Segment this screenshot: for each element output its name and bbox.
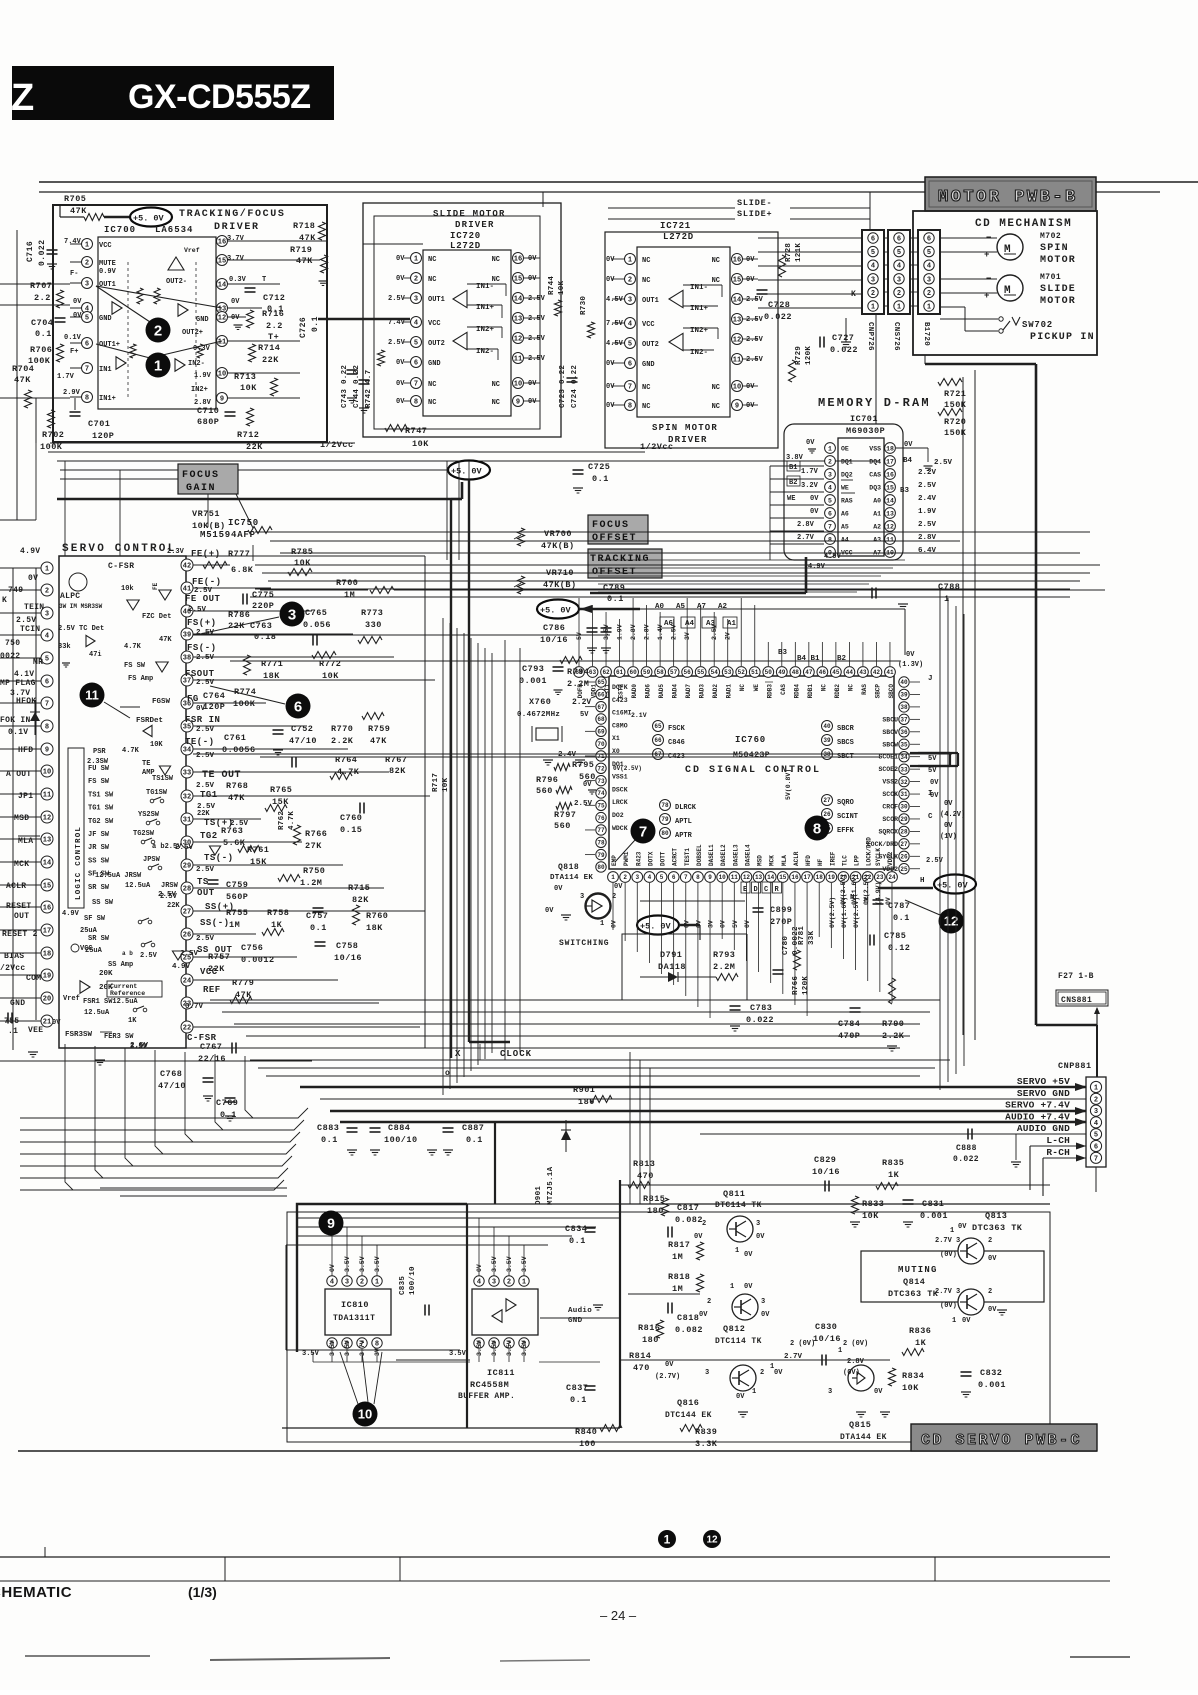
svg-text:1: 1	[1094, 1085, 1098, 1093]
svg-text:0V: 0V	[958, 1223, 967, 1231]
svg-text:10/16: 10/16	[812, 1167, 840, 1177]
svg-text:1: 1	[414, 256, 418, 264]
pin 6 IC721	[625, 358, 636, 369]
svg-text:GX-CD555Z: GX-CD555Z	[128, 78, 311, 116]
svg-text:2: 2	[760, 1369, 764, 1377]
svg-text:6: 6	[414, 360, 418, 368]
svg-text:APTR: APTR	[675, 832, 693, 840]
svg-text:11: 11	[886, 536, 894, 543]
svg-text:79: 79	[597, 852, 605, 859]
svg-text:R764: R764	[335, 755, 357, 765]
svg-text:11: 11	[218, 339, 226, 347]
svg-text:4: 4	[927, 263, 931, 271]
svg-text:2.3V: 2.3V	[167, 548, 185, 556]
svg-text:R786: R786	[228, 610, 250, 620]
svg-text:80: 80	[597, 864, 605, 871]
svg-text:3.5V: 3.5V	[491, 1340, 498, 1356]
svg-text:VEE: VEE	[28, 1026, 43, 1035]
svg-text:38: 38	[900, 704, 908, 711]
wire servo gnd rail	[320, 1098, 1086, 1100]
power +5.0V oval	[130, 208, 172, 227]
svg-text:78: 78	[661, 802, 669, 809]
svg-text:57: 57	[670, 669, 678, 676]
svg-text:27K: 27K	[305, 841, 322, 851]
pin 26 IC750	[181, 928, 193, 940]
pin 16 IC721	[732, 254, 743, 265]
pin 20 IC750	[0, 997, 41, 999]
svg-text:0.056: 0.056	[303, 620, 331, 630]
pin 7 IC700	[70, 367, 81, 369]
svg-text:3.5V: 3.5V	[476, 1340, 483, 1356]
wire callout 3	[200, 617, 279, 634]
svg-text:R793: R793	[713, 950, 735, 960]
focus gain label	[178, 464, 238, 494]
transistor Q815	[848, 1365, 874, 1391]
svg-text:0V: 0V	[810, 495, 819, 503]
wire R700 net	[260, 589, 368, 591]
svg-text:HF: HF	[817, 858, 824, 866]
svg-text:DTC114 TK: DTC114 TK	[715, 1201, 762, 1210]
ground C793	[554, 689, 563, 691]
svg-text:3.5V: 3.5V	[344, 1256, 351, 1272]
pin 9 IC720	[513, 396, 524, 407]
svg-text:RAD3: RAD3	[699, 684, 706, 699]
svg-text:0.3V: 0.3V	[229, 276, 247, 284]
svg-text:2.5V: 2.5V	[528, 355, 546, 363]
svg-text:66: 66	[597, 691, 605, 698]
svg-text:NC: NC	[712, 277, 720, 285]
motor M701 slide	[997, 275, 1023, 301]
svg-text:IC760: IC760	[735, 735, 766, 745]
svg-text:9: 9	[708, 874, 712, 881]
svg-text:2.5V: 2.5V	[918, 482, 937, 490]
pin 8 IC721	[625, 400, 636, 411]
svg-text:1: 1	[664, 1532, 671, 1546]
svg-text:10K: 10K	[902, 1383, 919, 1393]
svg-text:16: 16	[886, 471, 894, 478]
svg-text:MSD: MSD	[757, 855, 764, 866]
svg-text:NC: NC	[428, 399, 436, 407]
pin 10 IC750	[0, 770, 41, 772]
svg-text:ACRCT: ACRCT	[672, 848, 679, 866]
diode D left	[30, 712, 40, 721]
svg-text:DSCK: DSCK	[612, 786, 628, 793]
cd signal IC760 body	[609, 676, 894, 869]
svg-text:4: 4	[628, 321, 632, 329]
svg-text:12: 12	[514, 336, 522, 344]
svg-text:R-CH: R-CH	[1046, 1147, 1070, 1158]
svg-text:C725: C725	[588, 462, 610, 472]
svg-text:120P: 120P	[92, 431, 114, 441]
capacitor C755	[7, 1013, 9, 1024]
svg-text:4: 4	[45, 633, 49, 641]
svg-text:CNP881: CNP881	[1058, 1061, 1092, 1071]
cd signal IC760 internal sub pins	[653, 721, 664, 732]
svg-text:OUT: OUT	[14, 912, 29, 921]
svg-text:SQRO: SQRO	[837, 799, 854, 807]
svg-text:0V: 0V	[231, 314, 240, 322]
svg-text:SS(-): SS(-)	[200, 918, 230, 928]
svg-text:3: 3	[705, 1369, 709, 1377]
svg-text:4: 4	[1094, 1120, 1098, 1128]
svg-text:47/10: 47/10	[158, 1081, 186, 1091]
svg-text:MTZJ5.1A: MTZJ5.1A	[547, 1166, 555, 1205]
svg-text:K: K	[851, 290, 856, 299]
svg-text:100/10: 100/10	[384, 1135, 418, 1145]
svg-text:GND: GND	[99, 315, 112, 323]
svg-text:R760: R760	[366, 911, 388, 921]
svg-text:47K(B): 47K(B)	[541, 541, 575, 551]
svg-text:H: H	[920, 877, 925, 885]
svg-text:9: 9	[327, 1215, 335, 1231]
pin 5 IC700	[70, 316, 81, 318]
svg-text:0V: 0V	[806, 439, 815, 447]
svg-text:SERVO +7.4V: SERVO +7.4V	[1005, 1100, 1070, 1111]
svg-text:LA6534: LA6534	[155, 225, 193, 235]
svg-text:C724 0.22: C724 0.22	[571, 365, 579, 408]
svg-text:8: 8	[628, 403, 632, 411]
svg-text:C764: C764	[203, 691, 225, 701]
svg-text:C726: C726	[299, 317, 308, 338]
svg-text:749: 749	[8, 586, 23, 595]
pin 7 IC721	[625, 381, 636, 392]
svg-text:1.2M: 1.2M	[300, 878, 322, 888]
transistor Q813	[958, 1238, 984, 1264]
svg-text:0.1: 0.1	[310, 923, 327, 933]
svg-text:F+: F+	[70, 348, 78, 356]
pin column left IC760	[596, 677, 606, 687]
svg-text:0V: 0V	[944, 822, 953, 830]
svg-text:22K: 22K	[167, 902, 180, 910]
svg-text:IC811: IC811	[487, 1368, 515, 1378]
svg-text:2.2: 2.2	[266, 321, 283, 331]
pin 16 IC750	[0, 906, 41, 908]
pin 5 IC750	[0, 657, 41, 659]
svg-text:12: 12	[218, 315, 226, 323]
svg-text:L-CH: L-CH	[1046, 1135, 1070, 1146]
svg-text:SW702: SW702	[1022, 320, 1053, 330]
wire connector links	[884, 237, 888, 239]
svg-text:2.8V: 2.8V	[630, 624, 637, 640]
numbered mark 7	[631, 819, 656, 844]
svg-text:RAD7: RAD7	[685, 684, 692, 699]
svg-text:47K: 47K	[228, 793, 245, 803]
scan smudges	[25, 1655, 150, 1657]
svg-text:A5: A5	[841, 524, 849, 531]
svg-text:47i: 47i	[89, 651, 102, 659]
svg-text:RDB3: RDB3	[766, 684, 773, 699]
pin 22 IC750	[181, 1021, 193, 1033]
svg-text:SBCS: SBCS	[837, 739, 854, 747]
numbered mark 9	[319, 1211, 344, 1236]
svg-text:WE: WE	[841, 485, 849, 492]
svg-text:66: 66	[654, 737, 662, 744]
svg-text:R704: R704	[12, 364, 34, 374]
svg-text:C834: C834	[565, 1224, 587, 1234]
pin 14 IC701	[885, 495, 896, 506]
svg-text:A OUT: A OUT	[6, 770, 32, 779]
svg-text:2.8V: 2.8V	[797, 521, 815, 529]
svg-text:2.5V: 2.5V	[388, 295, 406, 303]
svg-text:12.5uA JRSW: 12.5uA JRSW	[95, 872, 142, 880]
svg-text:10: 10	[514, 381, 522, 389]
svg-text:RAD4: RAD4	[672, 684, 679, 699]
wire scoe thick bracket	[910, 752, 950, 754]
wire callout 12	[905, 900, 940, 915]
svg-text:0V: 0V	[396, 398, 405, 406]
svg-text:25: 25	[900, 866, 908, 873]
ground C725	[573, 487, 583, 489]
svg-text:TG1 SW: TG1 SW	[88, 805, 114, 813]
svg-text:CNP726: CNP726	[866, 322, 874, 351]
svg-text:8: 8	[85, 395, 89, 403]
svg-text:11: 11	[514, 356, 522, 364]
svg-text:BUFFER AMP.: BUFFER AMP.	[458, 1392, 515, 1401]
svg-text:0V: 0V	[746, 402, 755, 410]
svg-text:0V: 0V	[736, 1393, 745, 1401]
pin 13 IC750	[0, 838, 41, 840]
svg-text:JR SW: JR SW	[88, 844, 110, 852]
svg-text:0V: 0V	[944, 800, 953, 808]
pin 12 IC701	[885, 521, 896, 532]
svg-text:0V(2.5V): 0V(2.5V)	[863, 874, 870, 905]
svg-text:DTC114 TK: DTC114 TK	[715, 1337, 762, 1346]
svg-text:SBCO: SBCO	[888, 684, 895, 699]
wire arrow CNS881	[1096, 1008, 1098, 1025]
svg-text:9: 9	[516, 399, 520, 407]
svg-text:10/16: 10/16	[334, 953, 362, 963]
svg-text:39: 39	[900, 692, 908, 699]
svg-text:0.1: 0.1	[321, 1135, 338, 1145]
svg-text:R717: R717	[432, 773, 440, 792]
svg-text:Q813: Q813	[985, 1211, 1007, 1221]
svg-text:75: 75	[597, 802, 605, 809]
svg-text:RDB1: RDB1	[807, 684, 814, 699]
resistor R721	[938, 379, 962, 386]
svg-text:19: 19	[828, 874, 836, 881]
svg-text:NC: NC	[712, 257, 720, 265]
svg-text:TLC: TLC	[841, 855, 848, 866]
wire c789 thick rail	[590, 592, 806, 595]
svg-text:270P: 270P	[770, 917, 792, 927]
svg-text:R744: R744	[548, 276, 556, 295]
svg-text:47K: 47K	[370, 736, 387, 746]
svg-text:C743 0.22: C743 0.22	[341, 365, 349, 408]
ground q816	[738, 1411, 748, 1413]
svg-text:40: 40	[900, 679, 908, 686]
svg-text:7: 7	[85, 366, 89, 374]
svg-text:680P: 680P	[197, 417, 219, 427]
tracking offset label	[588, 549, 662, 578]
svg-text:C712: C712	[263, 293, 285, 303]
connector CNP881 body	[1086, 1077, 1106, 1167]
svg-text:RAS: RAS	[841, 498, 853, 505]
svg-text:FS SW: FS SW	[124, 662, 146, 670]
svg-text:3: 3	[85, 281, 89, 289]
svg-text:C16MI: C16MI	[612, 710, 632, 717]
svg-text:3: 3	[828, 1388, 832, 1396]
ground C716	[47, 263, 57, 265]
svg-text:FSOUT: FSOUT	[185, 669, 215, 679]
svg-text:TS(-): TS(-)	[204, 853, 234, 863]
ground left rail	[28, 1051, 38, 1053]
IC700 internal amplifiers	[112, 302, 122, 314]
ground 783	[730, 1025, 740, 1027]
svg-text:SPIN MOTOR: SPIN MOTOR	[652, 423, 718, 433]
svg-text:13: 13	[514, 316, 522, 324]
internal sub pins right IC760	[822, 721, 833, 732]
svg-text:4.7K: 4.7K	[122, 747, 140, 755]
svg-text:470: 470	[633, 1363, 650, 1373]
svg-text:Q811: Q811	[723, 1189, 745, 1199]
svg-text:FZC Det: FZC Det	[142, 613, 171, 621]
servo internal transistor ALPC	[69, 573, 87, 591]
svg-text:29: 29	[900, 816, 908, 823]
wire pwb drop thick	[1035, 364, 1038, 1025]
svg-text:49: 49	[778, 669, 786, 676]
svg-text:7: 7	[45, 701, 49, 709]
pin 13 IC720	[513, 313, 524, 324]
svg-text:0V: 0V	[744, 1251, 753, 1259]
svg-text:1M: 1M	[344, 590, 355, 600]
svg-text:65: 65	[654, 723, 662, 730]
svg-text:MOTOR PWB-B: MOTOR PWB-B	[938, 188, 1078, 207]
wire audio thick inner	[466, 1204, 468, 1428]
svg-text:A4: A4	[685, 620, 695, 628]
numbered mark 8	[805, 816, 830, 841]
pin 17 IC701	[885, 456, 896, 467]
svg-text:SQRCX: SQRCX	[878, 828, 898, 835]
svg-text:0V: 0V	[720, 920, 727, 928]
svg-text:26: 26	[900, 853, 908, 860]
svg-text:C789: C789	[603, 583, 625, 593]
svg-text:SBCW: SBCW	[882, 741, 898, 748]
svg-text:TG2 SW: TG2 SW	[88, 818, 114, 826]
svg-text:2.5V: 2.5V	[196, 654, 215, 662]
svg-text:4.9V: 4.9V	[62, 910, 80, 918]
svg-text:SERVO CONTROL: SERVO CONTROL	[62, 543, 176, 555]
svg-text:NC: NC	[712, 384, 720, 392]
svg-text:2.5V: 2.5V	[196, 726, 215, 734]
svg-text:2: 2	[507, 1279, 511, 1287]
svg-text:LRCK: LRCK	[612, 799, 628, 806]
svg-text:11: 11	[85, 688, 99, 703]
svg-text:4: 4	[477, 1279, 481, 1287]
svg-text:8: 8	[828, 536, 832, 543]
svg-text:0V: 0V	[231, 298, 240, 306]
wire bundle to audio box	[100, 1187, 287, 1189]
internal sub pins mid IC760	[660, 800, 671, 811]
svg-text:R702: R702	[42, 430, 64, 440]
wire clock drop	[468, 480, 470, 1042]
svg-text:5: 5	[85, 315, 89, 323]
resistor R747	[385, 425, 407, 432]
memory outer loop box	[784, 424, 903, 560]
svg-text:0.1: 0.1	[570, 1395, 587, 1405]
svg-text:IC810: IC810	[341, 1300, 369, 1310]
svg-text:VSS: VSS	[869, 446, 881, 453]
svg-text:NC: NC	[428, 256, 436, 264]
svg-text:CD SERVO PWB-C: CD SERVO PWB-C	[921, 1432, 1082, 1449]
svg-text:9: 9	[735, 403, 739, 411]
svg-text:DTC363 TK: DTC363 TK	[888, 1289, 939, 1299]
svg-text:HFD: HFD	[805, 855, 812, 866]
svg-text:GAIN: GAIN	[186, 483, 216, 494]
svg-text:Q815: Q815	[849, 1420, 871, 1430]
svg-text:2: 2	[360, 1279, 364, 1287]
pin 4 CNP881	[1090, 1117, 1101, 1128]
svg-text:R757: R757	[208, 952, 230, 962]
svg-text:0.12: 0.12	[888, 943, 910, 953]
svg-text:A7: A7	[697, 603, 706, 611]
pin 18 IC701	[885, 443, 896, 454]
svg-text:0V: 0V	[396, 255, 405, 263]
svg-text:35: 35	[900, 741, 908, 748]
svg-text:0.0056: 0.0056	[222, 745, 256, 755]
svg-text:0V: 0V	[874, 1388, 883, 1396]
svg-text:R768: R768	[226, 781, 248, 791]
svg-text:14: 14	[514, 296, 522, 304]
svg-text:A6: A6	[841, 511, 849, 518]
svg-text:0V: 0V	[611, 920, 618, 928]
svg-text:FSR1 SW12.5uA: FSR1 SW12.5uA	[83, 998, 138, 1006]
svg-text:3.5V: 3.5V	[521, 1256, 528, 1272]
svg-text:1: 1	[154, 357, 162, 374]
svg-text:R834: R834	[902, 1371, 924, 1381]
wire pot arrow focus gain	[235, 492, 253, 528]
svg-text:RAS: RAS	[861, 684, 868, 695]
svg-text:12: 12	[743, 874, 751, 881]
svg-text:3.5V: 3.5V	[374, 1256, 381, 1272]
svg-text:21: 21	[43, 1019, 51, 1027]
svg-text:JP1: JP1	[18, 792, 33, 801]
pin 5 IC721	[625, 338, 636, 349]
svg-text:0V(2.5V): 0V(2.5V)	[829, 897, 836, 928]
svg-text:WE: WE	[787, 495, 795, 503]
svg-text:SLIDE+: SLIDE+	[737, 209, 772, 219]
pin 10 IC721	[732, 381, 743, 392]
svg-text:100/10: 100/10	[409, 1266, 417, 1295]
svg-text:0.022: 0.022	[38, 239, 47, 266]
svg-text:9: 9	[45, 747, 49, 755]
pin 8 IC750	[0, 725, 41, 727]
svg-text:6: 6	[871, 236, 875, 244]
svg-text:20K: 20K	[99, 970, 113, 978]
svg-text:33k: 33k	[58, 643, 71, 651]
svg-text:SYCLK: SYCLK	[875, 848, 882, 866]
pin 19 IC750	[0, 974, 41, 976]
servo internal FZC	[127, 600, 139, 610]
svg-text:GND: GND	[642, 361, 655, 369]
overline WE pin	[841, 479, 853, 481]
svg-text:R765: R765	[270, 785, 292, 795]
pin 3 IC721	[625, 294, 636, 305]
op-amp IC720 body	[423, 250, 511, 416]
svg-text:(4.2V): (4.2V)	[940, 811, 965, 819]
pin 15 IC720	[513, 273, 524, 284]
svg-text:M701: M701	[1040, 273, 1061, 282]
svg-text:0.1: 0.1	[569, 1236, 586, 1246]
pin 1 IC721	[625, 254, 636, 265]
pin 11 IC720	[513, 353, 524, 364]
dac IC810 body	[325, 1289, 391, 1335]
svg-text:17: 17	[886, 458, 894, 465]
svg-text:1: 1	[952, 1317, 956, 1325]
pin 9 IC721	[732, 400, 743, 411]
svg-text:0V: 0V	[699, 1311, 708, 1319]
svg-text:32: 32	[900, 779, 908, 786]
svg-text:2.5V: 2.5V	[746, 316, 764, 324]
